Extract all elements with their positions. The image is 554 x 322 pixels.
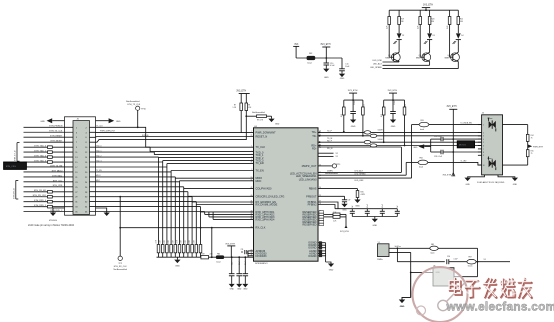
resistor series on ETH_TXD_3 [48,161,53,164]
connector J2 pin stubs [478,124,482,126]
svg-text:7: 7 [483,149,484,151]
svg-text:GND: GND [243,289,248,291]
wire LED branch 1 emitter to net LED_LINK [398,61,400,63]
svg-text:2x20 male pin array in Molex 7: 2x20 male pin array in Molex 70246-4402 [28,224,75,227]
resistor series on ETH_RXD_0 [48,200,53,203]
pin RESERVED 10 stub [319,216,324,218]
ground (oscillator, over watermark) [399,300,405,303]
svg-text:MMBT: MMBT [445,57,450,59]
wire TD termination bar [344,99,363,101]
LED D2 [397,33,402,38]
svg-text:Green: Green [487,157,492,160]
svg-text:bead: bead [419,167,423,169]
svg-text:ETH_RESET: ETH_RESET [50,136,63,138]
capacitor C35 0.1uF [244,256,246,258]
wire ETH_PWRDN (J5 pin 1) [24,126,74,128]
ground (C10) [323,69,329,72]
svg-text:FB4: FB4 [420,158,423,160]
ground (C45) [390,120,396,123]
capacitor C52 0.1uF (center tap) [431,138,441,140]
svg-text:30: 30 [251,177,253,179]
svg-text:GND: GND [465,184,470,186]
resistor R27 49.9 (RD-) [404,100,406,145]
ground (pulldown bank) [176,257,178,259]
svg-text:GND: GND [372,225,377,227]
resistor bank R32 4.7K [166,245,169,253]
wire RD- [318,145,482,147]
svg-text:LED_SPEED: LED_SPEED [355,174,367,176]
svg-text:www.elecfans.com: www.elecfans.com [446,299,554,313]
svg-text:49.9: 49.9 [364,104,366,107]
svg-text:ETH_MDINT: ETH_MDINT [51,141,63,143]
svg-text:IOGND: IOGND [308,254,317,258]
oscillator U5 body [433,268,454,286]
resistor R14 75 (termination top) [526,134,529,141]
svg-text:TD-: TD- [312,134,316,138]
svg-text:TD+: TD+ [312,130,317,134]
svg-text:6: 6 [483,145,484,147]
svg-text:RXD_3/PHYAD4: RXD_3/PHYAD4 [256,217,276,221]
resistor series on ETH_TXD_2 [48,156,53,159]
wire LED branch 2 collector leg [429,10,431,33]
svg-text:RESET_N: RESET_N [256,135,268,139]
IC U4 DP83848 body [254,128,319,261]
svg-text:Not Assembled: Not Assembled [252,111,265,114]
svg-text:3V3_ETH: 3V3_ETH [340,231,349,233]
pin X2 stub [318,152,334,154]
svg-text:ETH_TX_D: ETH_TX_D [15,150,17,161]
ferrite bead FB5 [430,246,438,250]
svg-text:75: 75 [531,138,533,140]
resistor R19 330 [398,17,401,25]
resistor R29 240 (analog supply) [201,256,209,259]
wire TD+ [318,131,482,133]
svg-text:D3: D3 [433,35,435,37]
resistor series on ETH_RX_ER [48,190,53,193]
svg-text:GND: GND [340,78,345,80]
svg-text:7: 7 [251,131,252,133]
wire TX_EN staircase [90,171,172,173]
ferrite bead FB7 [467,259,476,264]
svg-text:GND: GND [400,306,405,308]
svg-text:R29: R29 [202,253,205,255]
resistor R12 2.2K (RESERVED pullup) [324,216,333,218]
svg-text:49.9 1%: 49.9 1% [459,145,466,147]
ground (RBIAS) [354,200,360,203]
svg-text:1: 1 [483,125,484,127]
wire ETH_RX_CLK (J5 pin 29) [24,196,74,198]
ground (C34) [236,284,242,288]
LED D4 [456,33,461,38]
ground (J2 right) [498,175,515,178]
svg-text:COL/PHYAD0: COL/PHYAD0 [256,187,273,191]
ground (C44) [350,120,356,123]
connector J5 pin strip [73,121,90,215]
svg-text:41: 41 [251,201,253,203]
svg-text:MDIO: MDIO [96,175,101,177]
wire CRS staircase [90,191,188,193]
svg-text:GND: GND [329,270,334,272]
svg-text:RD_P: RD_P [327,140,333,142]
ground (PFBOUT cap) [341,204,347,207]
svg-text:bead: bead [420,129,424,131]
svg-text:Not Assembled: Not Assembled [126,100,139,103]
svg-text:44: 44 [251,213,253,215]
wire ETH_RXD_2 (J5 pin 35) [24,211,74,213]
svg-text:3: 3 [483,136,484,138]
wire J2 pin1 to termination [503,124,528,126]
svg-text:TP11: TP11 [336,164,340,166]
wire RD+ [318,141,482,143]
svg-text:LED_ACT: LED_ACT [373,63,383,66]
capacitor C10 0.1uF [324,62,330,64]
wire RXD_1 staircase [90,211,205,213]
svg-text:ETH_TXD_2: ETH_TXD_2 [34,155,46,157]
svg-text:25MHz_OUT: 25MHz_OUT [302,164,317,168]
svg-text:38: 38 [251,226,253,228]
wire Y1 output [389,251,411,253]
svg-text:14: 14 [319,147,321,149]
svg-text:6: 6 [251,159,252,161]
svg-text:TXD_3: TXD_3 [96,160,101,162]
svg-text:ETH_MDIO: ETH_MDIO [52,170,63,172]
svg-text:MMBT: MMBT [416,57,421,59]
wire center tap 1 [453,138,481,140]
capacitor 0.1uF (PFBIN) [381,209,383,212]
svg-text:39: 39 [251,203,253,205]
svg-text:ETH_RXD_2: ETH_RXD_2 [50,210,63,212]
wire oscillator enable corner [477,248,479,276]
wire LED branch 3 collector leg [457,10,459,33]
svg-text:ETH_CFG: ETH_CFG [6,166,16,168]
svg-text:3V3_ETH: 3V3_ETH [388,90,398,92]
svg-text:240: 240 [210,253,213,255]
ferrite beads on RD pair [364,141,371,144]
net label box (RD termination) [457,141,474,148]
svg-text:PWR_DOWN/INT: PWR_DOWN/INT [256,131,277,135]
wire ETH_TX_CLK to PHY [90,127,254,147]
resistor R26 49.9 (RD+) [383,100,385,142]
svg-text:LED_SPEED: LED_SPEED [370,67,382,69]
ground (PHY) [328,264,334,267]
svg-text:GND: GND [175,266,180,268]
wire RXD_2 stub [209,216,254,218]
ferrite bead FB6 [216,255,224,259]
svg-text:25MHz: 25MHz [377,259,383,261]
pin RESERVED 8 stub [319,221,324,223]
crystal Y1 [378,244,390,257]
ground (PFBIN caps) [374,217,376,219]
pin RESERVED 11 stub [319,213,324,215]
svg-text:TX_ER: TX_ER [256,161,264,165]
connector J2 RJ45 body [482,115,503,175]
transistor Q2 MMBT3904 [391,53,400,62]
svg-text:10: 10 [483,165,485,167]
wire RX_CLK tie [211,228,213,258]
svg-text:0.1uF: 0.1uF [367,204,369,208]
svg-text:R7: R7 [234,105,236,107]
LED D3 [427,33,432,38]
capacitor C44 0.1uF (TD) [352,100,354,111]
wire MDINT [90,137,247,143]
svg-text:36: 36 [251,162,253,164]
svg-text:K_LED/A_SEL: K_LED/A_SEL [461,122,473,125]
wire J2 pin8 to termination [503,164,528,166]
ground (J5 lower-left) [53,208,65,213]
svg-text:TXD_0: TXD_0 [96,146,101,148]
capacitor C50 0.1uF [446,259,448,264]
ground (oscillator) [399,300,405,303]
svg-text:46: 46 [251,218,253,220]
transistor Q4 MMBT3904 [451,53,460,62]
capacitor C32 (AVDD) [241,251,243,253]
svg-text:9: 9 [483,155,484,157]
resistor R8 1.5K (RESET pullup) [245,94,247,137]
wire ETH_TXD_0 (J5 pin 9) [24,146,74,148]
wire center tap cap bus [430,139,432,152]
wire RX_DV staircase [90,201,197,203]
resistor R21 330 [457,17,460,25]
ferrite bead FB3 [412,124,420,126]
svg-text:330: 330 [460,21,463,23]
wire TX_ER staircase [90,166,167,168]
svg-text:PWR_DWN_INT: PWR_DWN_INT [100,131,116,133]
svg-text:3V3_ETH: 3V3_ETH [447,106,457,108]
svg-text:R8: R8 [248,105,250,107]
wire ETH_TXD_1 (J5 pin 11) [24,151,74,153]
resistor R18 (base) [448,17,451,25]
svg-text:5: 5 [483,142,484,144]
wire TD- [318,135,482,137]
resistor bank R31 4.7K [161,245,164,253]
ground (J5 lower-right) [96,208,107,213]
ferrite bead FB2 [307,56,316,60]
svg-text:PFBOUT: PFBOUT [306,194,317,198]
wire MDC staircase [90,181,180,183]
wire RX_ER staircase [90,196,193,198]
svg-text:R14: R14 [531,135,534,137]
wire ETH_RESET (J5 pin 5) [24,136,74,138]
ground flag (center tap caps) [418,144,424,148]
svg-text:Y1: Y1 [378,242,380,244]
svg-text:LED_ACT: LED_ACT [355,170,364,173]
svg-text:MTG3050: MTG3050 [49,220,57,222]
wire oscillator ground [410,272,412,297]
svg-text:bead: bead [308,63,312,65]
svg-text:330: 330 [431,21,434,23]
wire ETH_TX_CLK (J5 pin 3) [24,131,74,133]
svg-text:3V3: 3V3 [294,44,299,46]
svg-text:C31: C31 [241,249,244,251]
svg-text:49.9: 49.9 [341,114,343,117]
svg-text:ETH_PWRDN: ETH_PWRDN [49,126,62,128]
svg-text:GND: GND [413,147,418,149]
svg-text:RBIAS: RBIAS [309,187,317,191]
resistor series on ETH_TXD_1 [48,151,53,154]
connector J5 shield frame [65,117,96,215]
svg-text:0.1uF: 0.1uF [394,100,396,104]
pin RESERVED 12 stub [319,223,324,225]
svg-text:ETH_TXD_1: ETH_TXD_1 [34,151,46,153]
svg-text:ETH_RX_D: ETH_RX_D [13,188,15,199]
svg-text:1: 1 [251,145,252,147]
wire LED branch 2 emitter to net LED_ACT [429,62,431,66]
svg-text:0.1uF: 0.1uF [454,259,458,261]
wire 3v3Osc drop [396,248,398,261]
wire 3V3_ETH LED supply rail [389,9,458,11]
capacitor C33 10uF [231,256,233,258]
wire LED branch 1 base leg [388,10,390,57]
svg-text:MMBT: MMBT [385,57,390,59]
svg-text:RD_M: RD_M [327,148,333,150]
wire LED_LINK (RJ45 side) [429,124,482,126]
svg-text:CRS/CRS_DV/LED_CFG: CRS/CRS_DV/LED_CFG [256,194,285,198]
svg-text:Yellow: Yellow [487,118,493,120]
svg-text:3V3_ETH: 3V3_ETH [236,90,246,92]
svg-text:RX_DV/MII_MODE: RX_DV/MII_MODE [256,203,278,207]
svg-text:TX_EN: TX_EN [96,170,102,172]
svg-text:3V3_ETH: 3V3_ETH [320,44,330,46]
wire COL staircase [90,186,184,188]
wire oscillator pin1 [411,271,433,273]
capacitor 1uF (PFBIN) [351,209,353,212]
resistor bank R34 4.7K [174,245,177,253]
wire TXD_3 staircase [90,161,163,163]
svg-text:D2: D2 [402,35,404,37]
svg-text:PWR_ETH: PWR_ETH [533,146,543,148]
svg-text:Green: Green [468,264,473,267]
wire ETH_CRS (J5 pin 25) [24,186,74,188]
resistor series on ETH_RX_CLK [48,195,53,198]
resistor R17 (base) [419,17,422,25]
wire TXD_0 staircase [90,146,151,148]
resistor bank R39 4.7K [195,245,198,253]
svg-text:R20: R20 [431,19,434,21]
svg-text:45: 45 [251,216,253,218]
wire LED_ACT to RJ45 [318,146,401,148]
capacitor C31 (AVDD) [244,250,246,254]
svg-text:IOVDD33: IOVDD33 [256,254,267,258]
svg-text:ETH_TX_EN: ETH_TX_EN [50,165,62,167]
svg-text:3V3_ETH: 3V3_ETH [348,90,358,92]
resistor bank R36 4.7K [182,245,185,253]
wire ETH_TXD_3 (J5 pin 15) [24,161,74,163]
svg-text:0.1uF: 0.1uF [239,261,241,265]
svg-text:0.1uF: 0.1uF [354,100,356,104]
svg-text:FB5: FB5 [431,244,434,246]
wire ETH_TXD_2 (J5 pin 13) [24,156,74,158]
svg-text:330: 330 [401,21,404,23]
net label box ETH_MODE [4,162,27,169]
ferrite beads on TD pair [364,131,371,134]
wire ETH_COL (J5 pin 23) [24,181,74,183]
wire RXD_0 staircase [90,206,201,208]
transistor Q3 MMBT3904 [422,53,431,62]
wire center tap 2 [453,151,481,153]
svg-text:ETH_RX_CLK: ETH_RX_CLK [33,195,47,197]
capacitor C34 0.1uF [238,256,240,258]
wire LED branch 1 collector leg [398,10,400,33]
watermark text 电子发烧友 [450,279,532,298]
svg-text:TXD_1: TXD_1 [96,150,101,152]
wire PFBIN rail [318,202,338,209]
svg-text:XCAC-AES-T113-20 7A@1GND: XCAC-AES-T113-20 7A@1GND [477,181,505,184]
resistor R25 4.87K (RBIAS) [318,188,358,190]
wire LED_LINK to RJ45 [318,177,412,179]
svg-text:C53 0.1uF: C53 0.1uF [434,156,442,158]
svg-text:R9 4.7K: R9 4.7K [257,120,264,122]
resistor bank R38 4.7K [191,245,194,253]
wire ETH_MDC (J5 pin 21) [24,176,74,178]
svg-text:RD-: RD- [312,147,317,151]
wire pulldown bank rail [157,256,254,258]
svg-text:X1: X1 [336,156,338,158]
wire oscillator ground (over watermark) [410,272,412,297]
svg-text:PFBIN2: PFBIN2 [308,203,318,207]
svg-text:RESERVED: RESERVED [303,222,317,226]
resistor R16 (base) [388,17,391,25]
wire LED branch 3 emitter to net LED_SPEED [457,62,459,69]
wire PFBIN cap ground rail [352,216,397,218]
svg-text:GND: GND [237,289,242,291]
resistor bank R40 4.7K (RX_CLK) [200,228,202,245]
svg-text:R15: R15 [531,150,534,152]
svg-text:bead: bead [217,261,221,263]
svg-text:Not Assembled: Not Assembled [113,268,126,271]
wire LED_SPEED (RJ45 side) [428,162,482,165]
svg-text:C52 0.1uF: C52 0.1uF [434,136,442,138]
wire RESET [90,136,254,139]
wire AVDD connection [248,250,254,252]
wire Y1 supply (3v3Osc) [389,247,478,249]
svg-text:8: 8 [483,152,484,154]
svg-text:R19: R19 [401,19,404,21]
svg-text:FB7: FB7 [469,257,472,259]
ferrite bead FB4 [406,161,418,163]
svg-text:D4: D4 [461,35,463,37]
svg-text:2: 2 [251,169,252,171]
ground (J2 left) [468,175,485,178]
svg-text:GND: GND [355,206,360,208]
svg-text:1uF: 1uF [397,205,399,208]
svg-text:0.1uF: 0.1uF [245,261,247,265]
wire PWR_DWN_INT [90,131,254,133]
svg-text:LED_LINK: LED_LINK [355,180,365,182]
svg-text:GND: GND [391,126,396,128]
svg-text:X1: X1 [484,259,486,261]
svg-text:FB3: FB3 [421,120,424,122]
svg-text:10uF: 10uF [232,261,234,265]
svg-text:42: 42 [251,187,253,189]
svg-text:1uF: 1uF [348,200,351,202]
wire RD termination bar [384,99,405,101]
svg-text:3: 3 [251,151,252,153]
svg-text:RXD_46: RXD_46 [142,135,148,137]
node CHS_GND [528,144,533,148]
wire ETH_RXD_0 (J5 pin 31) [24,201,74,203]
wire ETH_MDINT (J5 pin 7) [24,141,74,143]
wire TXD_2 staircase [90,156,159,158]
wire RXD_3 stub [213,218,253,220]
test point TP11 25MHz [318,165,332,167]
svg-text:ETH_RXD_1: ETH_RXD_1 [34,205,47,207]
resistor bank R37 4.7K [187,245,190,253]
svg-text:GND: GND [342,209,347,211]
resistor R11 2.2K (RESERVED pullup) [324,213,333,215]
resistor bank R30 4.7K [157,245,160,253]
svg-text:ETH_TXD_3: ETH_TXD_3 [34,160,46,162]
svg-text:G_LED: G_LED [461,161,468,163]
